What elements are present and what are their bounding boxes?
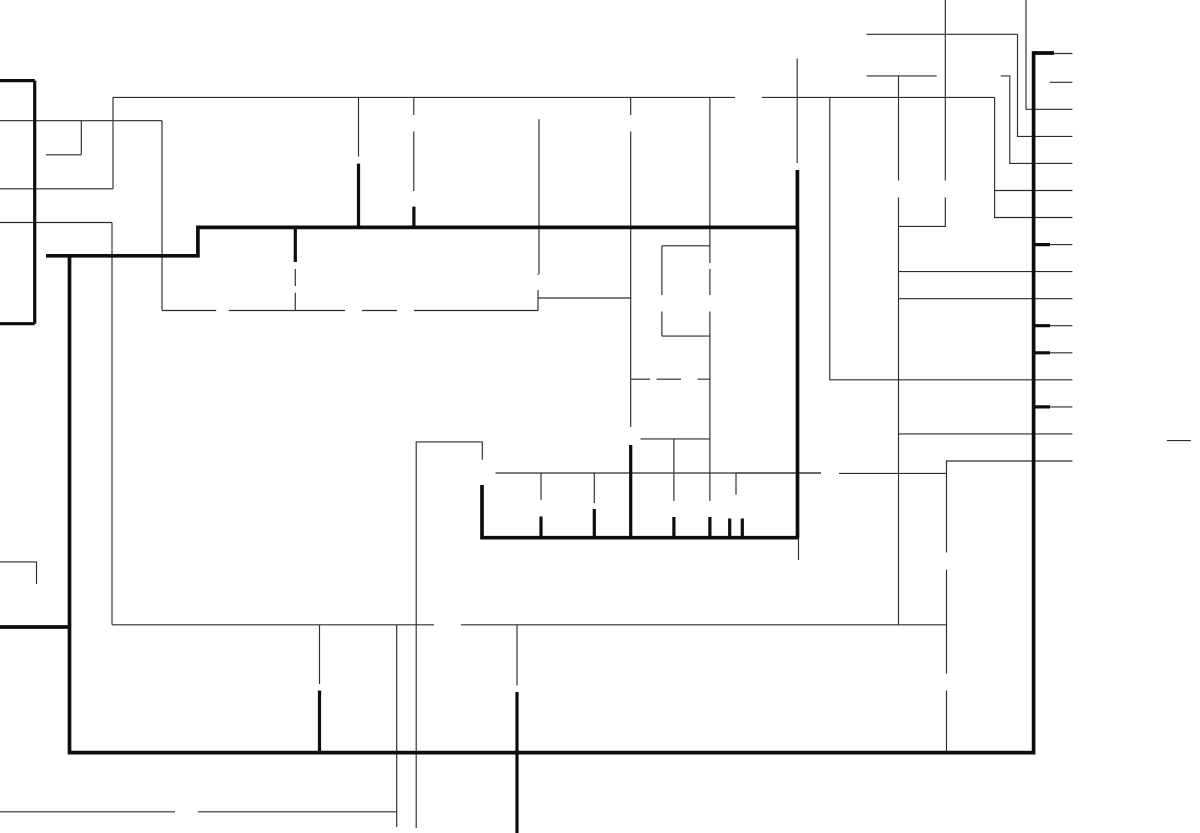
wire thick stub left at y627: [0, 625, 70, 629]
wire DI835 out to pin12: [1001, 76, 1073, 163]
wire QM802 base row: [496, 472, 947, 474]
wire QM802 emitter and S-GND bus: [482, 485, 799, 538]
wire LM851 5V output row: [112, 624, 947, 626]
wire pin4 5.3V from main rail: [830, 97, 1073, 379]
wire RM873 column: [673, 439, 675, 520]
wire CM869 thick stub: [294, 227, 297, 262]
wire CM876 thick bottom: [357, 164, 360, 228]
wire InverterON/OFF to DI835: [867, 75, 937, 77]
wire CM876 top: [358, 97, 360, 156]
wire 13V to pin11 pin10: [995, 97, 1073, 217]
wire pin9 down to DM851: [0, 223, 112, 625]
wire KIA431 ref row: [641, 438, 710, 440]
transformer body: [0, 81, 35, 324]
wire RM872 bottom junction row: [538, 297, 631, 299]
wire 13Vm stem: [796, 59, 798, 98]
wire CM852 top: [319, 625, 321, 684]
wire GND stub thin parts: [1050, 245, 1072, 407]
wire ZM805 top: [735, 473, 737, 495]
wire DM852 rectifier row: [162, 290, 538, 311]
wire Y1 cap to S-GND: [0, 562, 37, 584]
wire pin15 stub: [1050, 81, 1073, 83]
wire RM870 5.3V column: [898, 76, 900, 625]
wire CM869 CM853 interlink: [294, 269, 296, 311]
wire 18V thick bus: [46, 227, 798, 255]
wire CM855 top: [593, 473, 595, 503]
wire DET_5V from top to pin14: [1026, 0, 1072, 109]
wire RM852 bottom row: [0, 811, 397, 813]
wire CM867 S-GND column: [796, 170, 800, 538]
wire QM801 source column: [538, 119, 539, 275]
wire pin2 STB: [899, 433, 1073, 435]
wire RM874 parallel loop: [662, 246, 710, 336]
wire KIA431 cathode column: [630, 379, 632, 427]
wire transformer return column and bottom ground bus and GND bus: [70, 53, 1055, 753]
wire CM854 top: [516, 625, 518, 686]
wire pin10 to main rail: [0, 97, 113, 188]
wire pin8 5.3V: [899, 271, 1073, 273]
wire S-GND stub under bus: [798, 538, 800, 560]
wire RM879 top: [540, 473, 542, 500]
wire GND stubs pins 9 6 5 3: [1034, 245, 1050, 407]
wire component stubs to S-GND bus: [541, 445, 742, 538]
wire E-PWM to pin13: [867, 34, 1073, 136]
wire RM882 RM833 PWR column: [946, 474, 948, 753]
wire CM867 top: [796, 97, 798, 163]
wire CM870 RM881 RM875 RM876 column: [709, 97, 711, 520]
wire pin7 5.3V: [899, 298, 1073, 300]
wire QM802 collector from below: [416, 442, 482, 828]
wire RM858 column: [630, 97, 632, 379]
wire pin1 POWER ON/OFF: [947, 461, 1073, 474]
wire RM859 ZM804 column: [413, 97, 415, 191]
wire pin12 pin11 junction to x162: [0, 121, 162, 311]
wire ZM804 thick bottom: [412, 207, 415, 228]
wire RI847 column from top: [899, 0, 946, 226]
wire STB row continuation at border: [1167, 440, 1191, 442]
wire RM864 row: [736, 472, 821, 474]
wire CM852 thick bottom: [318, 691, 321, 754]
wire x396 column: [396, 625, 398, 827]
wire CM854 thick bottom and continuation: [515, 692, 518, 833]
wire 13V main rail: [113, 96, 995, 98]
wire CM863 RM875 row: [631, 378, 710, 380]
wire pin16 stub thin part: [1054, 53, 1072, 55]
